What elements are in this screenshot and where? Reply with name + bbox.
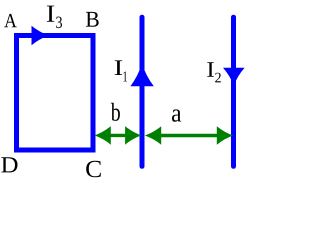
label I1 - I — [115, 60, 123, 75]
label b — [111, 103, 120, 121]
node B label — [86, 12, 99, 27]
wire 1 — [140, 17, 145, 166]
label I3 - sub 3 — [56, 17, 62, 29]
wire 2 — [231, 17, 236, 166]
label I3 - I — [47, 6, 54, 22]
label a — [172, 109, 181, 121]
wire loop ABCD — [17, 36, 94, 151]
label I1 - sub 1 — [123, 72, 127, 82]
current arrow I3 on top edge — [32, 26, 49, 45]
current arrow I1 on wire 1 — [130, 64, 153, 87]
dimension arrow b (between loop and wire 1) — [94, 126, 141, 145]
node C label — [86, 161, 101, 177]
dimension arrow a (between wire 1 and wire 2) — [145, 126, 233, 145]
node A label — [4, 14, 16, 27]
current arrow I2 on wire 2 — [223, 68, 245, 86]
label I2 - I — [207, 62, 214, 76]
node D label — [1, 157, 17, 172]
label I2 - sub 2 — [215, 73, 221, 83]
